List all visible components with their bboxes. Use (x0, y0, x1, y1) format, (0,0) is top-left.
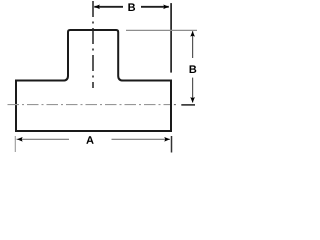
label A (bottom) (86, 136, 93, 144)
label B (top) (128, 3, 135, 11)
arrow down (right B) (190, 97, 195, 103)
dimension line A, right segment (112, 138, 171, 140)
dimension line B top, right segment (141, 6, 169, 8)
dimension line B top, left segment (94, 6, 123, 8)
dimension line B right, lower segment (192, 78, 194, 103)
centerline dot right of run end (174, 104, 176, 106)
tee fitting body outline (16, 30, 171, 131)
extension line bottom right (171, 136, 173, 153)
extension line bottom left (14, 136, 16, 152)
dimension line B right, upper segment (192, 31, 194, 58)
arrow up (right B) (190, 31, 195, 37)
horizontal centerline of run (8, 104, 171, 106)
extension line from run right end (up) (170, 3, 172, 73)
arrow left (top B) (94, 5, 100, 10)
dimension line A, left segment (17, 138, 70, 140)
label B (right) (190, 65, 197, 73)
extension line from branch top (right) (126, 29, 197, 31)
dark centerline end dash (dimension reference) (181, 104, 195, 106)
arrow left (A) (17, 137, 23, 142)
vertical centerline of branch (92, 1, 94, 88)
arrow right (A) (164, 137, 170, 142)
arrow right (top B) (163, 5, 169, 10)
